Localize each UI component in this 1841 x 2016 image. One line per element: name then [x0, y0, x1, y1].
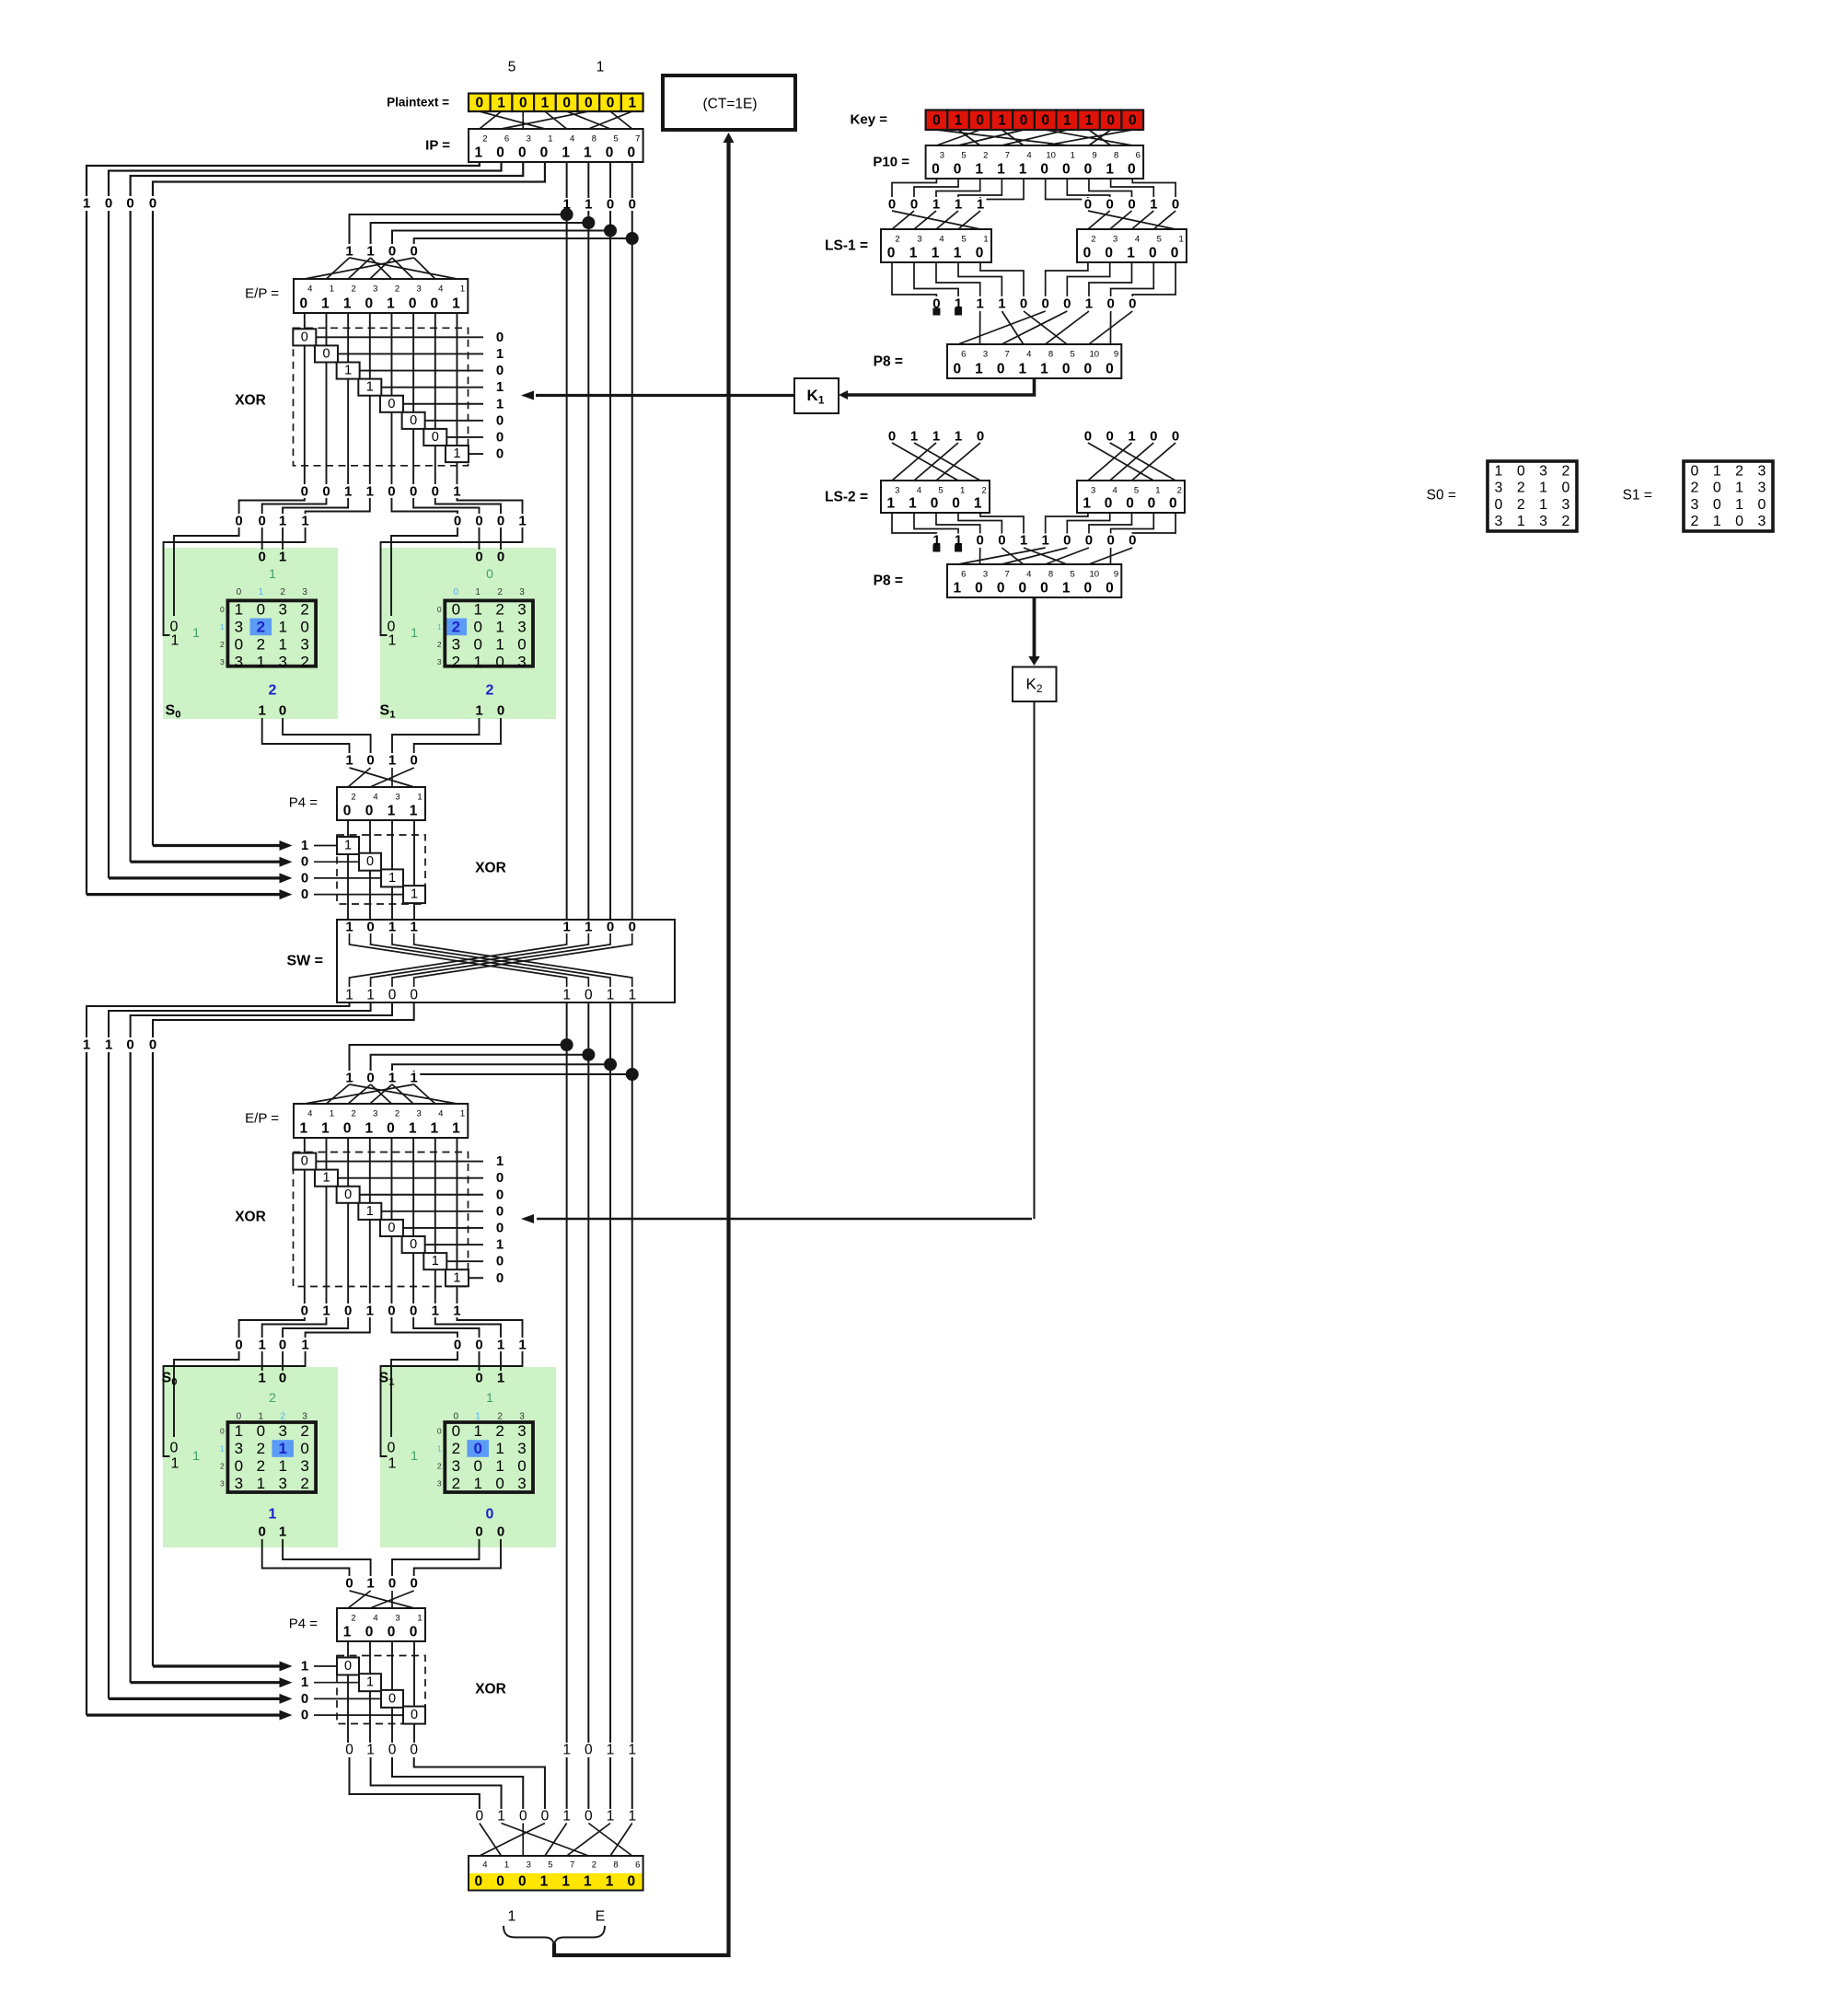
svg-text:3: 3 [1495, 514, 1503, 529]
svg-text:0: 0 [432, 484, 439, 500]
svg-text:0: 0 [607, 95, 615, 110]
svg-text:0: 0 [1169, 496, 1177, 512]
svg-text:1: 1 [452, 296, 460, 312]
svg-text:7: 7 [1005, 350, 1010, 360]
svg-text:0: 0 [585, 988, 593, 1003]
svg-text:1: 1 [366, 244, 374, 260]
svg-text:0: 0 [1041, 296, 1048, 312]
svg-text:1: 1 [321, 296, 330, 312]
svg-text:1: 1 [366, 1576, 374, 1592]
svg-text:6: 6 [1136, 151, 1140, 161]
svg-text:1: 1 [496, 1237, 504, 1253]
svg-text:3: 3 [235, 653, 243, 670]
svg-text:0: 0 [998, 533, 1005, 549]
svg-text:1: 1 [584, 145, 592, 161]
svg-text:0: 0 [300, 618, 308, 635]
svg-text:3: 3 [1495, 481, 1503, 496]
svg-text:1: 1 [269, 1507, 277, 1523]
svg-text:2: 2 [497, 1412, 503, 1422]
svg-text:1: 1 [1040, 362, 1048, 377]
svg-text:2: 2 [1735, 464, 1743, 480]
svg-text:8: 8 [613, 1860, 618, 1871]
svg-text:1: 1 [497, 95, 505, 110]
svg-text:0: 0 [437, 605, 442, 614]
svg-text:0: 0 [496, 446, 504, 462]
svg-text:2: 2 [257, 618, 265, 635]
svg-text:3: 3 [437, 657, 442, 666]
svg-text:1: 1 [475, 1412, 481, 1422]
svg-text:1: 1 [497, 1371, 504, 1386]
svg-text:0: 0 [345, 1743, 353, 1758]
svg-text:0: 0 [105, 196, 112, 212]
svg-text:3: 3 [302, 1412, 307, 1422]
svg-text:XOR: XOR [475, 1682, 506, 1697]
svg-text:0: 0 [1105, 496, 1113, 512]
svg-text:3: 3 [416, 1109, 421, 1119]
svg-text:0: 0 [366, 753, 374, 769]
svg-text:0: 0 [322, 484, 330, 500]
svg-text:1: 1 [387, 296, 395, 312]
svg-text:3: 3 [517, 1422, 526, 1440]
svg-text:1: 1 [330, 1109, 334, 1119]
svg-text:1: 1 [259, 1338, 266, 1353]
svg-text:1: 1 [257, 1475, 265, 1492]
svg-text:0: 0 [496, 1170, 504, 1186]
svg-text:0: 0 [977, 429, 984, 445]
svg-text:2: 2 [1091, 235, 1095, 245]
svg-text:1: 1 [330, 284, 334, 295]
svg-text:0: 0 [1041, 112, 1049, 128]
svg-text:0: 0 [410, 413, 417, 428]
svg-text:0: 0 [366, 854, 374, 869]
svg-text:1: 1 [366, 380, 374, 395]
svg-text:0: 0 [629, 197, 636, 213]
svg-text:2: 2 [437, 1462, 442, 1471]
svg-text:0: 0 [1172, 429, 1179, 445]
svg-text:1: 1 [1517, 514, 1525, 529]
svg-text:2: 2 [1177, 486, 1182, 496]
svg-text:2: 2 [300, 1422, 308, 1440]
svg-text:1: 1 [259, 1412, 264, 1422]
svg-text:3: 3 [917, 235, 921, 245]
svg-text:0: 0 [1084, 197, 1092, 213]
svg-text:0: 0 [387, 1121, 395, 1137]
svg-text:0: 0 [562, 95, 571, 110]
svg-text:1: 1 [437, 622, 442, 631]
svg-text:1: 1 [910, 429, 918, 445]
svg-text:1: 1 [321, 1121, 330, 1137]
svg-text:1: 1 [300, 1121, 308, 1137]
svg-text:1: 1 [366, 1303, 374, 1319]
svg-text:1: 1 [955, 112, 963, 128]
svg-text:1: 1 [562, 1743, 571, 1758]
svg-text:0: 0 [495, 1475, 504, 1492]
svg-text:0: 0 [410, 1303, 417, 1319]
svg-text:1: 1 [388, 1456, 397, 1472]
svg-text:1: 1 [932, 429, 940, 445]
svg-text:1: 1 [269, 566, 276, 581]
svg-text:0: 0 [517, 1457, 526, 1475]
svg-text:1: 1 [473, 653, 481, 670]
svg-text:6: 6 [961, 350, 966, 360]
svg-text:0: 0 [220, 605, 225, 614]
svg-text:0: 0 [365, 1625, 374, 1640]
svg-text:0: 0 [476, 1809, 484, 1825]
svg-text:3: 3 [452, 1457, 460, 1475]
svg-text:1: 1 [932, 197, 940, 213]
svg-text:0: 0 [411, 1576, 418, 1592]
svg-text:3: 3 [1691, 497, 1699, 513]
svg-text:0: 0 [1019, 581, 1027, 597]
svg-text:0: 0 [301, 1691, 308, 1707]
svg-text:1: 1 [607, 988, 615, 1003]
svg-text:S1 =: S1 = [1623, 488, 1652, 504]
svg-text:0: 0 [259, 550, 266, 565]
svg-text:0: 0 [388, 397, 395, 411]
svg-text:1: 1 [1083, 496, 1091, 512]
svg-text:0: 0 [1171, 246, 1179, 261]
svg-text:1: 1 [437, 1444, 442, 1454]
svg-text:1: 1 [496, 379, 504, 395]
svg-text:1: 1 [278, 1457, 286, 1475]
svg-text:0: 0 [888, 197, 896, 213]
svg-text:4: 4 [1026, 350, 1031, 360]
svg-text:1: 1 [388, 920, 396, 935]
svg-text:0: 0 [301, 1303, 308, 1319]
svg-text:0: 0 [997, 581, 1005, 597]
svg-text:1: 1 [1041, 533, 1048, 549]
svg-text:1: 1 [473, 600, 481, 618]
svg-text:0: 0 [496, 412, 504, 428]
svg-text:0: 0 [496, 330, 504, 345]
svg-text:0: 0 [454, 587, 459, 597]
svg-text:1: 1 [453, 484, 460, 500]
svg-text:P4 =: P4 = [289, 1616, 318, 1632]
svg-text:0: 0 [410, 1625, 418, 1640]
svg-text:1: 1 [504, 1860, 509, 1871]
svg-text:3: 3 [1757, 481, 1766, 496]
svg-text:0: 0 [976, 246, 984, 261]
svg-text:5: 5 [1134, 486, 1139, 496]
svg-text:0: 0 [496, 1254, 504, 1269]
svg-text:0: 0 [257, 600, 265, 618]
svg-text:1: 1 [998, 296, 1005, 312]
svg-text:2: 2 [486, 683, 494, 699]
svg-text:4: 4 [307, 1109, 312, 1119]
svg-text:2: 2 [300, 600, 308, 618]
svg-text:1: 1 [607, 1809, 615, 1825]
svg-text:4: 4 [438, 1109, 443, 1119]
svg-text:1: 1 [628, 1809, 636, 1825]
svg-text:1: 1 [388, 753, 396, 769]
svg-text:3: 3 [940, 151, 944, 161]
svg-text:1: 1 [1128, 429, 1135, 445]
svg-text:1: 1 [322, 1303, 330, 1319]
svg-text:1: 1 [954, 581, 962, 597]
svg-text:0: 0 [301, 870, 308, 886]
svg-text:0: 0 [585, 1809, 593, 1825]
svg-text:1: 1 [453, 1270, 460, 1285]
svg-text:0: 0 [952, 496, 960, 512]
svg-text:0: 0 [496, 1220, 504, 1235]
svg-text:0: 0 [975, 581, 983, 597]
svg-text:9: 9 [1114, 350, 1118, 360]
svg-text:6: 6 [961, 570, 966, 580]
svg-text:0: 0 [541, 1809, 550, 1825]
svg-text:1: 1 [171, 633, 179, 649]
svg-text:0: 0 [430, 296, 438, 312]
svg-text:5: 5 [613, 134, 618, 145]
svg-text:1: 1 [475, 145, 483, 161]
svg-text:3: 3 [517, 1475, 526, 1492]
svg-text:0: 0 [473, 618, 481, 635]
svg-text:0: 0 [235, 1457, 243, 1475]
svg-text:0: 0 [496, 145, 504, 161]
svg-text:0: 0 [1062, 162, 1071, 178]
svg-text:1: 1 [628, 95, 636, 110]
svg-text:0: 0 [1106, 112, 1115, 128]
svg-text:0: 0 [1495, 497, 1503, 513]
svg-text:0: 0 [606, 145, 614, 161]
svg-text:10: 10 [1090, 570, 1100, 580]
svg-text:0: 0 [1172, 197, 1179, 213]
svg-text:1: 1 [606, 1874, 614, 1890]
svg-text:0: 0 [235, 514, 242, 529]
svg-text:1: 1 [171, 1456, 179, 1472]
svg-text:0: 0 [475, 1338, 482, 1353]
svg-text:9: 9 [1092, 151, 1096, 161]
svg-text:2: 2 [495, 600, 504, 618]
svg-text:1: 1 [628, 988, 636, 1003]
svg-text:0: 0 [300, 1440, 308, 1457]
svg-text:1: 1 [955, 429, 962, 445]
svg-text:2: 2 [895, 235, 899, 245]
svg-text:0: 0 [1757, 497, 1766, 513]
svg-text:3: 3 [300, 1457, 308, 1475]
svg-text:1: 1 [411, 887, 418, 902]
svg-text:0: 0 [540, 145, 549, 161]
svg-text:0: 0 [126, 1037, 133, 1053]
svg-text:0: 0 [1063, 296, 1071, 312]
svg-text:1: 1 [345, 244, 353, 260]
svg-text:1: 1 [954, 246, 962, 261]
svg-text:2: 2 [280, 1412, 285, 1422]
svg-text:1: 1 [220, 1444, 225, 1454]
svg-text:2: 2 [1691, 514, 1699, 529]
svg-text:1: 1 [453, 446, 460, 461]
svg-text:5: 5 [548, 1860, 552, 1871]
svg-text:1: 1 [1019, 162, 1027, 178]
svg-text:0: 0 [126, 196, 133, 212]
svg-text:3: 3 [1539, 514, 1547, 529]
svg-text:3: 3 [395, 1614, 399, 1624]
svg-text:0: 0 [888, 429, 896, 445]
svg-text:1: 1 [345, 1071, 353, 1086]
svg-text:7: 7 [1005, 570, 1010, 580]
svg-text:0: 0 [519, 95, 527, 110]
svg-text:3: 3 [895, 486, 899, 496]
svg-text:0: 0 [452, 600, 460, 618]
svg-text:0: 0 [475, 1371, 482, 1386]
svg-text:1: 1 [235, 600, 243, 618]
svg-text:1: 1 [345, 753, 353, 769]
svg-text:1: 1 [909, 246, 918, 261]
svg-text:3: 3 [437, 1479, 442, 1489]
svg-text:0: 0 [235, 1338, 242, 1353]
svg-text:5: 5 [961, 235, 966, 245]
svg-text:0: 0 [388, 1743, 397, 1758]
svg-text:0: 0 [1020, 296, 1027, 312]
svg-text:0: 0 [388, 1303, 395, 1319]
svg-text:4: 4 [570, 134, 574, 145]
svg-text:8: 8 [592, 134, 596, 145]
svg-text:6: 6 [635, 1860, 640, 1871]
svg-text:2: 2 [1561, 464, 1569, 480]
svg-text:0: 0 [170, 1441, 179, 1456]
svg-text:0: 0 [518, 145, 527, 161]
svg-text:1: 1 [497, 1338, 504, 1353]
svg-text:1: 1 [540, 1874, 549, 1890]
svg-text:(CT=1E): (CT=1E) [703, 97, 758, 112]
svg-text:0: 0 [1713, 481, 1721, 496]
svg-text:1: 1 [977, 197, 984, 213]
svg-text:2: 2 [257, 635, 265, 653]
svg-text:E/P =: E/P = [245, 1111, 279, 1127]
svg-text:0: 0 [343, 1121, 352, 1137]
svg-text:2: 2 [452, 653, 460, 670]
svg-text:1: 1 [366, 484, 374, 500]
svg-text:LS-2 =: LS-2 = [825, 490, 868, 505]
svg-text:1: 1 [562, 1809, 571, 1825]
svg-text:1: 1 [1539, 481, 1547, 496]
svg-text:0: 0 [300, 296, 308, 312]
svg-text:0: 0 [301, 484, 308, 500]
svg-text:0: 0 [1020, 112, 1028, 128]
svg-text:0: 0 [954, 362, 962, 377]
svg-text:0: 0 [279, 1338, 286, 1353]
svg-text:0: 0 [345, 1576, 353, 1592]
svg-text:3: 3 [519, 587, 525, 597]
svg-text:3: 3 [517, 1440, 526, 1457]
svg-text:0: 0 [1040, 581, 1048, 597]
svg-text:2: 2 [452, 618, 460, 635]
svg-text:4: 4 [307, 284, 312, 295]
svg-text:0: 0 [932, 112, 941, 128]
svg-text:0: 0 [496, 1187, 504, 1202]
svg-text:0: 0 [473, 635, 481, 653]
svg-text:7: 7 [570, 1860, 574, 1871]
svg-text:1: 1 [259, 587, 264, 597]
svg-text:1: 1 [909, 496, 917, 512]
svg-text:0: 0 [473, 1440, 481, 1457]
svg-text:1: 1 [518, 514, 526, 529]
svg-text:1: 1 [473, 1475, 481, 1492]
svg-text:0: 0 [410, 1743, 418, 1758]
svg-text:0: 0 [1129, 533, 1136, 549]
svg-text:1: 1 [411, 1448, 418, 1463]
svg-text:1: 1 [411, 1071, 418, 1086]
svg-text:0: 0 [518, 1874, 527, 1890]
svg-text:0: 0 [1106, 581, 1114, 597]
svg-text:2: 2 [452, 1475, 460, 1492]
svg-text:0: 0 [1129, 296, 1136, 312]
svg-text:0: 0 [344, 1188, 352, 1202]
svg-text:10: 10 [1046, 151, 1056, 161]
svg-text:4: 4 [482, 1860, 487, 1871]
svg-text:4: 4 [939, 235, 944, 245]
svg-text:0: 0 [454, 514, 461, 529]
svg-text:3: 3 [452, 635, 460, 653]
svg-text:0: 0 [235, 635, 243, 653]
svg-text:2: 2 [1517, 497, 1525, 513]
svg-text:1: 1 [259, 703, 266, 719]
svg-text:1: 1 [452, 1121, 460, 1137]
svg-text:9: 9 [1114, 570, 1118, 580]
svg-text:0: 0 [476, 95, 484, 110]
svg-text:0: 0 [1106, 362, 1114, 377]
svg-text:1: 1 [497, 1809, 505, 1825]
svg-text:1: 1 [585, 197, 592, 213]
svg-text:0: 0 [496, 1270, 504, 1286]
svg-text:1: 1 [998, 112, 1006, 128]
svg-text:1: 1 [496, 1153, 504, 1169]
svg-text:3: 3 [302, 587, 307, 597]
svg-text:XOR: XOR [475, 861, 506, 876]
svg-text:0: 0 [1128, 197, 1135, 213]
svg-text:1: 1 [584, 1874, 592, 1890]
svg-text:0: 0 [301, 1154, 308, 1169]
svg-text:0: 0 [1106, 197, 1114, 213]
svg-text:1: 1 [460, 1109, 465, 1119]
svg-text:0: 0 [1083, 581, 1092, 597]
svg-text:1: 1 [1127, 246, 1135, 261]
svg-text:1: 1 [301, 838, 308, 853]
svg-text:1: 1 [410, 804, 418, 819]
svg-text:2: 2 [352, 1109, 356, 1119]
svg-text:10: 10 [1090, 350, 1100, 360]
svg-text:1: 1 [1071, 151, 1075, 161]
svg-text:1: 1 [975, 162, 983, 178]
svg-text:0: 0 [1084, 162, 1093, 178]
svg-text:1: 1 [548, 134, 552, 145]
svg-text:XOR: XOR [235, 393, 266, 409]
svg-text:0: 0 [1105, 246, 1113, 261]
svg-text:3: 3 [278, 653, 286, 670]
svg-text:2: 2 [983, 151, 988, 161]
svg-text:1: 1 [343, 296, 352, 312]
svg-text:1: 1 [366, 1204, 374, 1219]
svg-text:E: E [596, 1909, 606, 1925]
svg-text:0: 0 [1106, 429, 1114, 445]
svg-text:1: 1 [475, 703, 482, 719]
svg-text:1: 1 [1085, 112, 1094, 128]
svg-text:1: 1 [105, 1037, 112, 1053]
svg-text:0: 0 [388, 1576, 396, 1592]
svg-text:1: 1 [607, 1743, 615, 1758]
svg-text:1: 1 [1713, 514, 1721, 529]
svg-text:0: 0 [1063, 533, 1071, 549]
svg-text:3: 3 [220, 657, 225, 666]
svg-text:2: 2 [395, 284, 399, 295]
svg-text:1: 1 [344, 839, 352, 853]
svg-text:0: 0 [409, 296, 417, 312]
svg-text:0: 0 [1148, 496, 1156, 512]
svg-text:0: 0 [454, 1338, 461, 1353]
svg-text:1: 1 [192, 1448, 200, 1463]
svg-text:2: 2 [352, 284, 356, 295]
svg-text:1: 1 [1178, 235, 1183, 245]
svg-text:2: 2 [220, 640, 225, 649]
